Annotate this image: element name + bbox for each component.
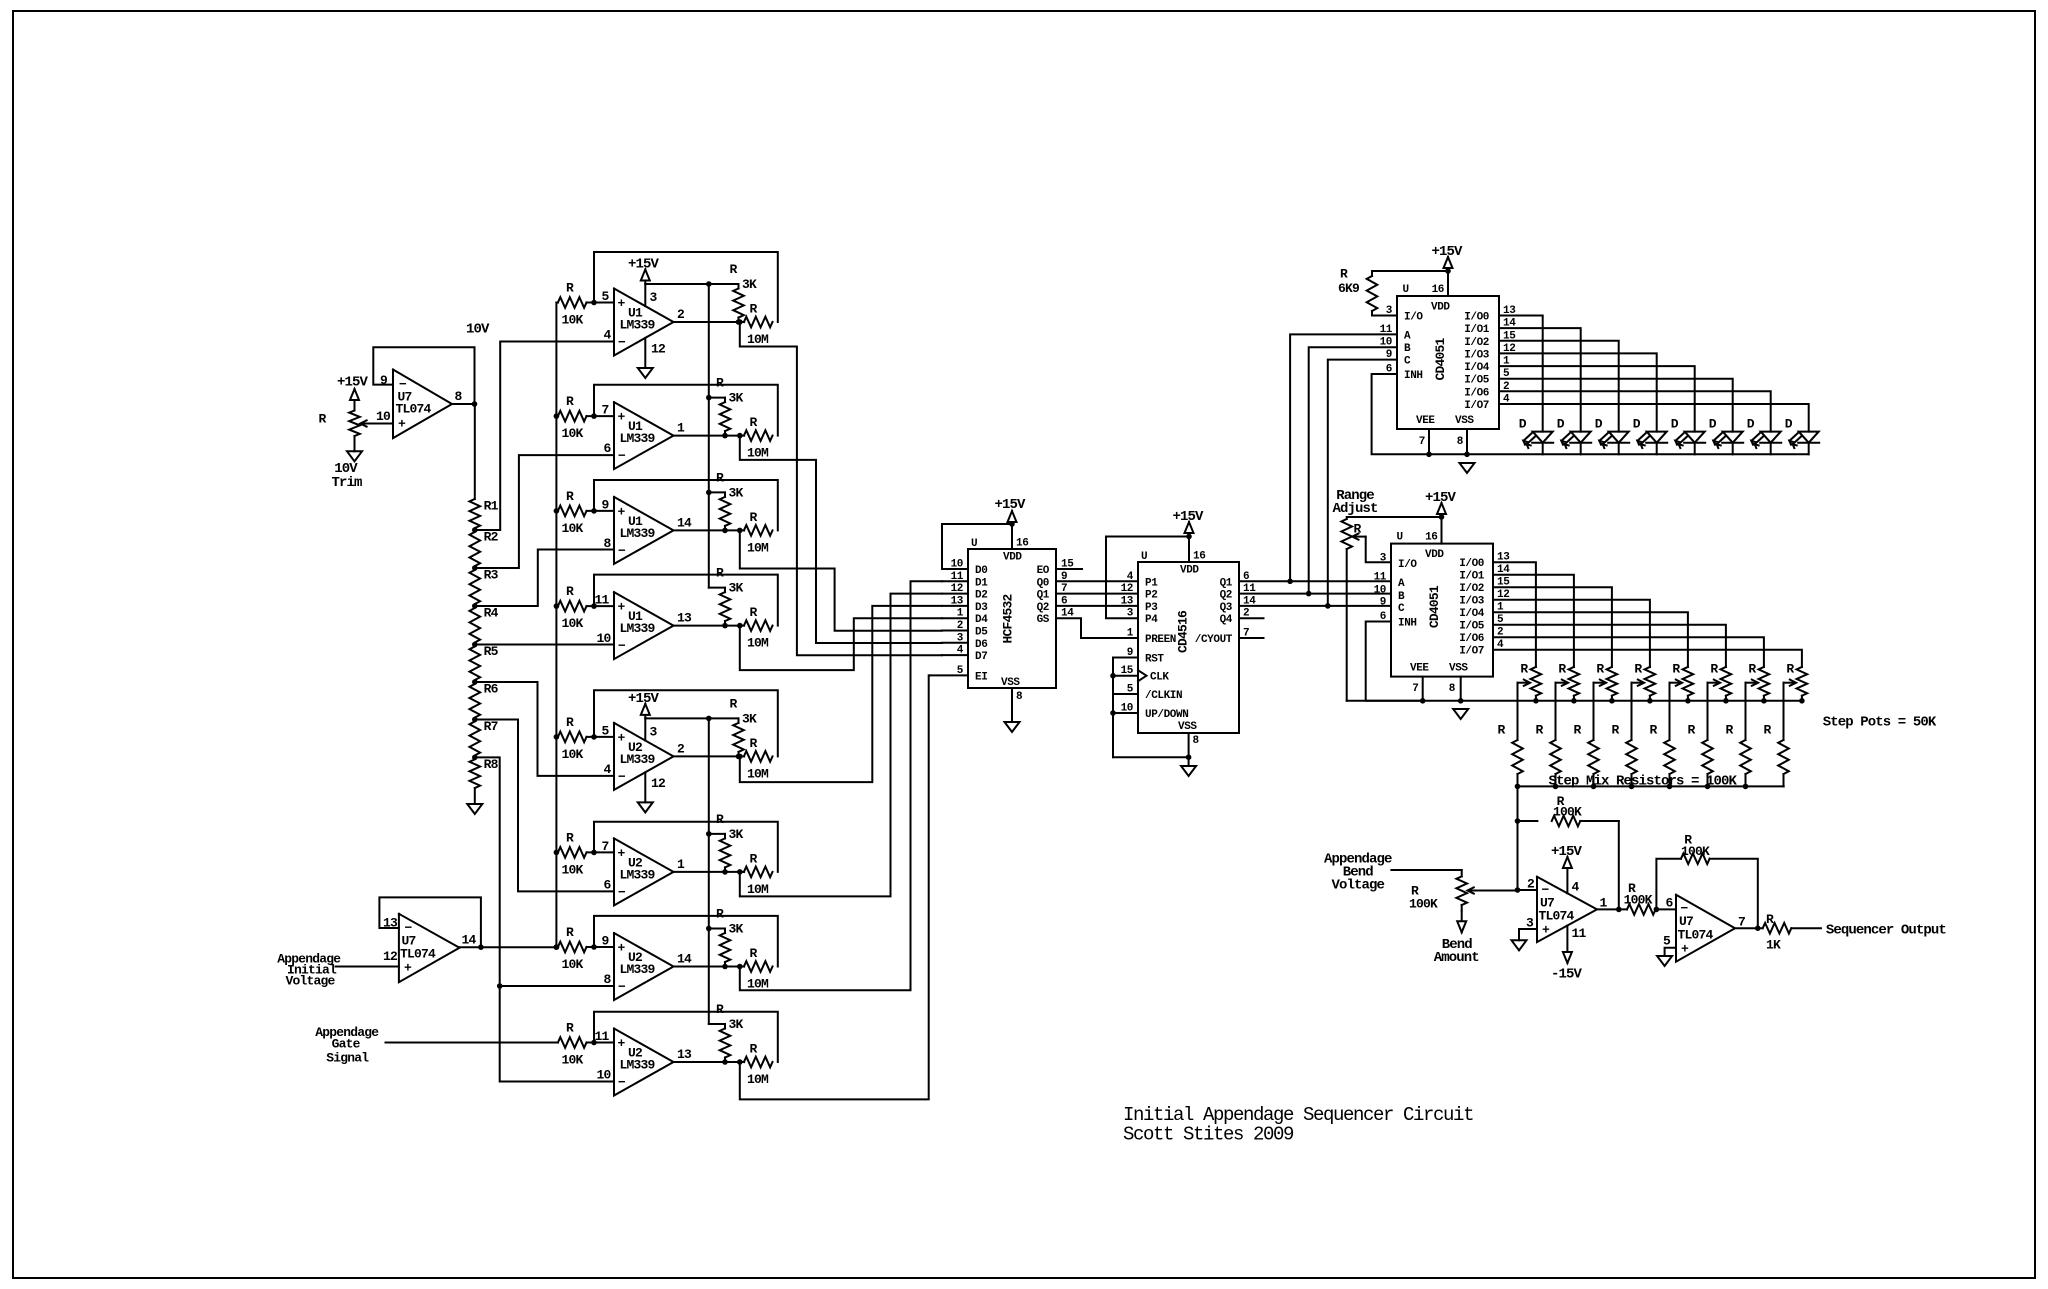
wire output bbox=[674, 966, 745, 968]
wire GS to CD4516 PREEN bbox=[1056, 618, 1138, 638]
resistor R (step mix 7, 100K) bbox=[1740, 740, 1751, 774]
pin 7 /CYOUT stub bbox=[1239, 637, 1264, 639]
pin 8 VSS wire 4516 bbox=[1188, 733, 1190, 766]
comparator U2 section 2 (U2 pins 5/4/2) bbox=[614, 723, 674, 790]
svg-text:14: 14 bbox=[462, 933, 477, 948]
resistor R 10K (input, comp 1) bbox=[558, 297, 587, 308]
node ladder tap R2/R3 bbox=[472, 565, 478, 571]
power +15V lower mux bbox=[1441, 503, 1443, 517]
node + input junction bbox=[591, 603, 597, 609]
svg-text:R8: R8 bbox=[484, 757, 499, 772]
wire P4 tied to VDD bbox=[1106, 537, 1189, 619]
svg-text:1: 1 bbox=[1600, 896, 1608, 911]
wire feedback loop top bbox=[594, 822, 778, 872]
svg-text:I/O: I/O bbox=[1398, 559, 1417, 571]
node ladder tap R6/R7 bbox=[472, 717, 478, 723]
svg-text:2: 2 bbox=[1527, 877, 1535, 892]
wire output bbox=[674, 1061, 745, 1063]
power +15V (comp 1 pin 3) bbox=[644, 270, 646, 285]
svg-text:16: 16 bbox=[1432, 284, 1444, 296]
resistor R 10K (input, comp 2) bbox=[558, 411, 587, 422]
resistor R8 (ladder) bbox=[470, 759, 481, 788]
IC U6 CD4051 analog mux bbox=[1391, 544, 1493, 677]
resistor R 10M (feedback, comp 1) bbox=[744, 317, 773, 328]
pin 15 EO stub bbox=[1056, 568, 1082, 570]
ground comp 1 pin 12 bbox=[638, 368, 653, 378]
svg-text:R: R bbox=[1650, 723, 1658, 738]
IC U4 CD4516 up/down counter bbox=[1138, 562, 1239, 733]
svg-text:+15V: +15V bbox=[337, 375, 369, 391]
svg-text:D4: D4 bbox=[975, 614, 988, 626]
svg-text:14: 14 bbox=[677, 952, 692, 967]
node + bus tap bbox=[554, 944, 560, 950]
pin 2 Q4 stub bbox=[1239, 617, 1264, 619]
svg-text:D: D bbox=[1595, 417, 1603, 432]
svg-text:10K: 10K bbox=[562, 616, 584, 631]
svg-text:VSS: VSS bbox=[1178, 721, 1197, 733]
wire step wiper bbox=[1556, 682, 1567, 684]
svg-text:R: R bbox=[716, 1002, 724, 1017]
node + bus tap bbox=[554, 508, 560, 514]
wire feedback loop top bbox=[594, 480, 778, 530]
svg-text:Scott Stites 2009: Scott Stites 2009 bbox=[1123, 1124, 1294, 1146]
wire I/O5 to step pot 6 bbox=[1493, 625, 1726, 667]
wire Q1 to CD4516 P2 bbox=[1056, 593, 1138, 595]
svg-text:VEE: VEE bbox=[1416, 415, 1435, 427]
svg-text:LM339: LM339 bbox=[620, 1058, 656, 1073]
LED arrows bbox=[1599, 433, 1607, 441]
svg-text:U: U bbox=[1403, 284, 1409, 296]
wire I/O3 to LED 4 bbox=[1499, 353, 1657, 431]
node + bus tap bbox=[554, 734, 560, 740]
node step pot to bus bbox=[1647, 698, 1653, 704]
svg-text:10M: 10M bbox=[747, 540, 769, 555]
svg-text:+15V: +15V bbox=[628, 257, 660, 273]
node output branch bbox=[737, 964, 743, 970]
resistor R 6K9 (I/O pull) bbox=[1372, 271, 1448, 276]
wire I/O7 to step pot 8 bbox=[1493, 650, 1802, 667]
svg-text:I/O7: I/O7 bbox=[1464, 400, 1489, 412]
wire init feedback loop bbox=[379, 897, 481, 947]
svg-text:VSS: VSS bbox=[1449, 663, 1468, 675]
svg-text:R: R bbox=[750, 946, 758, 961]
pin 7 VEE wire upper bbox=[1428, 429, 1430, 454]
svg-text:+15V: +15V bbox=[1551, 844, 1583, 860]
svg-text:C: C bbox=[1404, 356, 1411, 368]
op-amp U7 (bend summing) bbox=[1537, 877, 1597, 942]
wire 3K top to +15V bus bbox=[709, 928, 725, 930]
IC U3 HCF4532 priority encoder bbox=[968, 549, 1056, 688]
svg-text:D: D bbox=[1785, 417, 1793, 432]
svg-text:Q4: Q4 bbox=[1220, 614, 1233, 626]
wire step wiper bbox=[1594, 682, 1605, 684]
svg-text:11: 11 bbox=[1572, 926, 1587, 941]
svg-text:R: R bbox=[716, 376, 724, 391]
svg-text:CD4051: CD4051 bbox=[1433, 338, 1448, 381]
comparator U2 section 14 (U2 pins 9/8/14) bbox=[614, 933, 674, 1000]
resistor R (step mix 2, 100K) bbox=[1550, 740, 1561, 774]
node ladder tap R4/R5 bbox=[472, 642, 478, 648]
node step pot to bus bbox=[1723, 698, 1729, 704]
node output branch bbox=[737, 623, 743, 629]
svg-text:R: R bbox=[1596, 662, 1604, 677]
svg-text:R: R bbox=[1786, 662, 1794, 677]
svg-text:R: R bbox=[730, 696, 738, 711]
resistor R 3K (pull-up, comp 8) bbox=[720, 1029, 731, 1058]
wire feedback loop top bbox=[594, 385, 778, 436]
svg-text:I/O5: I/O5 bbox=[1459, 621, 1485, 633]
pin 8 VSS wire lower bbox=[1460, 677, 1462, 701]
svg-text:RST: RST bbox=[1145, 654, 1164, 666]
node output branch bbox=[737, 869, 743, 875]
svg-text:10: 10 bbox=[596, 1068, 611, 1083]
resistor R6 (ladder) bbox=[470, 684, 481, 718]
wire I/O0 to step pot 1 bbox=[1493, 562, 1536, 667]
wire Q2 to CD4516 P3 bbox=[1056, 605, 1138, 607]
svg-text:3K: 3K bbox=[729, 391, 744, 406]
svg-text:10M: 10M bbox=[747, 1072, 769, 1087]
resistor R 3K (pull-up, comp 5) bbox=[733, 723, 744, 752]
svg-text:11: 11 bbox=[1380, 324, 1393, 336]
wire I/O2 to step pot 3 bbox=[1493, 587, 1612, 667]
svg-text:12: 12 bbox=[383, 949, 398, 964]
svg-text:R: R bbox=[750, 415, 758, 430]
svg-text:B: B bbox=[1398, 591, 1405, 603]
wire ladder tap 6 to comparator 6 inverting input bbox=[475, 720, 614, 892]
svg-text:+: + bbox=[618, 600, 626, 615]
svg-text:8: 8 bbox=[455, 389, 463, 404]
wire +15V distribution bus lower bbox=[708, 718, 710, 1024]
svg-text:R: R bbox=[1574, 723, 1582, 738]
svg-text:8: 8 bbox=[1457, 436, 1464, 448]
svg-text:R: R bbox=[1726, 723, 1734, 738]
svg-text:R: R bbox=[566, 584, 574, 599]
svg-text:10K: 10K bbox=[562, 747, 584, 762]
svg-text:6K9: 6K9 bbox=[1338, 281, 1360, 296]
svg-text:11: 11 bbox=[1374, 572, 1387, 584]
svg-text:I/O3: I/O3 bbox=[1464, 349, 1490, 361]
svg-text:R: R bbox=[730, 262, 738, 277]
svg-text:10: 10 bbox=[1374, 584, 1386, 596]
svg-text:1: 1 bbox=[677, 421, 685, 436]
wire comparator 6 output routing bbox=[740, 594, 942, 897]
wire U7 output bbox=[452, 403, 475, 405]
node 3K bottom bbox=[722, 528, 728, 534]
potentiometer R (10V trim) bbox=[349, 411, 360, 437]
svg-text:Trim: Trim bbox=[331, 475, 362, 491]
svg-text:R: R bbox=[566, 925, 574, 940]
svg-text:I/O6: I/O6 bbox=[1464, 387, 1489, 399]
svg-text:R: R bbox=[750, 510, 758, 525]
node mix resistor to bus bbox=[1591, 784, 1597, 790]
svg-text:R: R bbox=[750, 851, 758, 866]
node output branch bbox=[737, 754, 743, 760]
wire pot bottom to ground bbox=[354, 436, 356, 451]
node VDD junction lower mux bbox=[1439, 514, 1445, 520]
op-amp U7 (output inverter) bbox=[1676, 895, 1735, 962]
svg-text:Adjust: Adjust bbox=[1332, 501, 1378, 517]
LED arrows bbox=[1675, 433, 1683, 441]
svg-text:R: R bbox=[1688, 723, 1696, 738]
wire +15V distribution bus upper bbox=[708, 284, 710, 588]
node mix resistor to bus bbox=[1743, 784, 1749, 790]
wire bend voltage to pot bbox=[1391, 869, 1461, 871]
svg-text:+: + bbox=[618, 846, 626, 861]
svg-text:VSS: VSS bbox=[1455, 415, 1474, 427]
wire 3K top to +15V bus bbox=[709, 587, 725, 589]
svg-text:R: R bbox=[750, 605, 758, 620]
svg-text:10V: 10V bbox=[466, 322, 490, 338]
ground HCF4532 VSS bbox=[1005, 722, 1020, 732]
svg-text:16: 16 bbox=[1016, 538, 1028, 550]
node 3K bottom bbox=[722, 964, 728, 970]
resistor R 3K (pull-up, comp 4) bbox=[720, 592, 731, 621]
wire feedback loop top bbox=[594, 1012, 778, 1062]
node step pot to bus bbox=[1609, 698, 1615, 704]
wire 10K to + input bbox=[587, 736, 615, 738]
svg-text:TL074: TL074 bbox=[396, 402, 432, 417]
svg-text:100K: 100K bbox=[1409, 897, 1438, 912]
wire R8 to ground bbox=[474, 788, 476, 804]
wire I/O3 to step pot 4 bbox=[1493, 600, 1650, 667]
svg-text:Voltage: Voltage bbox=[1332, 878, 1385, 894]
resistor R 10M (feedback, comp 8) bbox=[744, 1057, 773, 1068]
svg-text:+: + bbox=[618, 730, 626, 745]
wire step wiper bbox=[1632, 682, 1643, 684]
svg-text:3K: 3K bbox=[729, 485, 744, 500]
node + bus tap bbox=[554, 850, 560, 856]
svg-text:10M: 10M bbox=[747, 766, 769, 781]
svg-text:+: + bbox=[1542, 923, 1550, 938]
node VDD junction upper mux bbox=[1445, 268, 1451, 274]
resistor R (step mix 3, 100K) bbox=[1588, 740, 1599, 774]
svg-text:5: 5 bbox=[1663, 934, 1671, 949]
wire + input bus (initial voltage) bbox=[555, 303, 557, 948]
svg-text:8: 8 bbox=[1449, 683, 1456, 695]
svg-text:9: 9 bbox=[1380, 597, 1386, 609]
LED arrows bbox=[1751, 433, 1759, 441]
wire range pot bottom to ground bus bbox=[1346, 549, 1348, 701]
svg-text:10M: 10M bbox=[747, 636, 769, 651]
svg-text:−: − bbox=[618, 885, 626, 900]
node + bus bottom bbox=[554, 944, 560, 950]
wire summing node to pin 2 bbox=[1518, 889, 1538, 891]
op-amp U7 (Appendage Initial Voltage buffer) bbox=[399, 914, 460, 982]
svg-text:R: R bbox=[716, 566, 724, 581]
pin 5 ground wire bbox=[1665, 948, 1676, 956]
wire lower mux ground bus to step pots bbox=[1347, 700, 1802, 702]
svg-text:VEE: VEE bbox=[1410, 663, 1429, 675]
svg-text:3K: 3K bbox=[742, 277, 757, 292]
resistor R 3K (pull-up, comp 6) bbox=[720, 838, 731, 867]
svg-text:Voltage: Voltage bbox=[285, 974, 335, 989]
node + input junction bbox=[591, 1040, 597, 1046]
wire I/O1 to LED 2 bbox=[1499, 328, 1581, 432]
svg-text:6: 6 bbox=[603, 877, 611, 892]
ground comp 5 pin 12 bbox=[638, 802, 653, 812]
svg-text:U: U bbox=[1397, 532, 1403, 544]
svg-text:−: − bbox=[618, 769, 626, 784]
svg-text:D7: D7 bbox=[975, 651, 987, 663]
wire I/O7 to LED 8 bbox=[1499, 404, 1809, 432]
node mix resistor to bus bbox=[1553, 784, 1559, 790]
svg-text:I/O4: I/O4 bbox=[1459, 608, 1485, 620]
svg-text:I/O3: I/O3 bbox=[1459, 596, 1485, 608]
node +15V bus start bbox=[706, 281, 712, 287]
wire step wiper bbox=[1746, 682, 1757, 684]
svg-text:P1: P1 bbox=[1145, 577, 1158, 589]
wire 10K to + input bbox=[587, 302, 615, 304]
svg-text:+15V: +15V bbox=[1431, 244, 1463, 260]
svg-text:Step Pots = 50K: Step Pots = 50K bbox=[1823, 715, 1937, 731]
wire +15V to 3K top bbox=[645, 283, 738, 285]
svg-text:4: 4 bbox=[1572, 880, 1580, 895]
node +15V bus junction bbox=[706, 490, 712, 496]
wire range pot wiper to I/O bbox=[1354, 536, 1366, 538]
svg-text:12: 12 bbox=[651, 342, 666, 357]
wire comparator 3 output routing bbox=[740, 530, 942, 630]
wire ladder tap 4 to comparator 4 inverting input bbox=[475, 644, 614, 646]
svg-text:VSS: VSS bbox=[1001, 677, 1020, 689]
node + input junction bbox=[591, 508, 597, 514]
wire mix bus to summing node bbox=[1517, 786, 1519, 890]
wire output bbox=[674, 625, 745, 627]
pin 8 VSS wire upper bbox=[1466, 429, 1468, 454]
svg-text:2: 2 bbox=[677, 741, 685, 756]
wire ladder tap 7 to comparator 7 inverting input bbox=[475, 757, 614, 986]
node step bus junction bbox=[1533, 698, 1539, 704]
resistor R (step mix 5, 100K) bbox=[1664, 740, 1675, 774]
svg-text:8: 8 bbox=[1193, 735, 1200, 747]
potentiometer R (Range Adjust) bbox=[1347, 517, 1442, 519]
wire Q0 to CD4516 P1 bbox=[1056, 580, 1138, 582]
svg-text:R: R bbox=[566, 830, 574, 845]
svg-text:R: R bbox=[566, 715, 574, 730]
svg-text:6: 6 bbox=[603, 441, 611, 456]
node step pot to bus bbox=[1799, 698, 1805, 704]
svg-text:10K: 10K bbox=[562, 313, 584, 328]
wire ladder tap 1 to comparator 1 inverting input bbox=[475, 342, 614, 531]
potentiometer R (step 1, 50K) bbox=[1531, 667, 1542, 696]
svg-text:−: − bbox=[618, 449, 626, 464]
wire ladder tap 2 to comparator 2 inverting input bbox=[475, 455, 614, 568]
svg-text:R: R bbox=[1520, 662, 1528, 677]
svg-text:100K: 100K bbox=[1681, 844, 1710, 859]
node init output bbox=[478, 944, 484, 950]
LED arrows bbox=[1789, 433, 1797, 441]
node + input junction bbox=[591, 300, 597, 306]
svg-text:1K: 1K bbox=[1766, 938, 1781, 953]
wire output bbox=[674, 755, 745, 757]
svg-text:10K: 10K bbox=[562, 426, 584, 441]
pin 7 VEE wire lower bbox=[1422, 677, 1424, 701]
resistor R (step mix 4, 100K) bbox=[1626, 740, 1637, 774]
pin 3 power stub bbox=[644, 718, 646, 740]
svg-text:D: D bbox=[1709, 417, 1717, 432]
comparator U1 section 14 (U1 pins 9/8/14) bbox=[614, 497, 674, 564]
svg-text:R: R bbox=[1672, 662, 1680, 677]
wire output bbox=[674, 435, 745, 437]
svg-text:3K: 3K bbox=[742, 711, 757, 726]
svg-text:Step Mix Resistors = 100K: Step Mix Resistors = 100K bbox=[1549, 773, 1738, 789]
power +15V upper mux bbox=[1447, 257, 1449, 271]
svg-text:LM339: LM339 bbox=[620, 318, 656, 333]
pin 8 VSS wire bbox=[1011, 688, 1013, 722]
comparator U1 section 2 (U1 pins 5/4/2) bbox=[614, 289, 674, 356]
svg-text:D2: D2 bbox=[975, 590, 987, 602]
wire Q3 to mux address C bbox=[1239, 605, 1391, 607]
svg-text:TL074: TL074 bbox=[400, 947, 436, 962]
svg-text:10: 10 bbox=[596, 631, 611, 646]
resistor R 10K (input, comp 3) bbox=[558, 506, 587, 517]
resistor R7 (ladder) bbox=[470, 722, 481, 756]
svg-text:R: R bbox=[566, 1021, 574, 1036]
wire INH upper mux to ground bus bbox=[1372, 374, 1429, 454]
svg-text:13: 13 bbox=[1121, 595, 1134, 607]
svg-text:EI: EI bbox=[975, 671, 987, 683]
svg-text:R: R bbox=[1558, 662, 1566, 677]
node output junction bbox=[1616, 907, 1622, 913]
svg-text:U: U bbox=[971, 538, 977, 550]
wire step wiper bbox=[1670, 682, 1681, 684]
wire ladder tap 5 to comparator 5 inverting input bbox=[475, 682, 614, 776]
wire step wiper bbox=[1708, 682, 1719, 684]
node mix resistor to bus bbox=[1515, 784, 1521, 790]
node VSS ground junction bbox=[1186, 754, 1192, 760]
pin 16 VDD wire lower mux bbox=[1441, 517, 1443, 544]
svg-text:I/O1: I/O1 bbox=[1459, 571, 1485, 583]
wire ground bus to LEDs bbox=[1429, 453, 1809, 455]
ground 10V trim bbox=[347, 451, 362, 461]
svg-text:+15V: +15V bbox=[994, 497, 1026, 513]
LED arrows bbox=[1523, 433, 1531, 441]
svg-text:8: 8 bbox=[603, 972, 611, 987]
svg-text:CD4516: CD4516 bbox=[1176, 610, 1191, 653]
svg-text:D: D bbox=[1671, 417, 1679, 432]
node + input junction bbox=[591, 734, 597, 740]
svg-text:12: 12 bbox=[1121, 583, 1133, 595]
wire step mix bus bbox=[1518, 785, 1784, 787]
wire feedback right leg bbox=[1618, 821, 1620, 909]
svg-text:P4: P4 bbox=[1145, 614, 1158, 626]
pin 16 VDD wire upper mux bbox=[1447, 271, 1449, 296]
wire I/O0 to LED 1 bbox=[1499, 316, 1543, 432]
resistor R 100K (U7 summing feedback) bbox=[1518, 820, 1538, 822]
node VDD junction bbox=[1009, 521, 1015, 527]
resistor R5 (ladder) bbox=[470, 647, 481, 681]
power -15V summing opamp bbox=[1566, 952, 1568, 963]
wire I/O6 to step pot 7 bbox=[1493, 637, 1764, 667]
svg-text:10M: 10M bbox=[747, 332, 769, 347]
svg-text:+: + bbox=[404, 961, 412, 976]
resistor R 3K (pull-up, comp 1) bbox=[733, 289, 744, 318]
power +15V HCF4532 bbox=[1011, 511, 1013, 524]
potentiometer R (step 6, 50K) bbox=[1721, 667, 1732, 696]
svg-text:100K: 100K bbox=[1553, 805, 1582, 820]
svg-text:UP/DOWN: UP/DOWN bbox=[1145, 709, 1188, 721]
svg-text:I/O4: I/O4 bbox=[1464, 362, 1490, 374]
svg-text:1: 1 bbox=[1127, 628, 1134, 640]
node output branch bbox=[737, 1059, 743, 1065]
wire 10K to + input bbox=[587, 946, 615, 948]
node + input junction bbox=[591, 413, 597, 419]
wire 10K to + input bbox=[587, 415, 615, 417]
svg-text:HCF4532: HCF4532 bbox=[1001, 594, 1016, 644]
power +15V for trim pot bbox=[354, 389, 356, 411]
svg-text:10: 10 bbox=[376, 409, 391, 424]
svg-text:Q0: Q0 bbox=[1037, 577, 1049, 589]
svg-text:D6: D6 bbox=[975, 639, 987, 651]
